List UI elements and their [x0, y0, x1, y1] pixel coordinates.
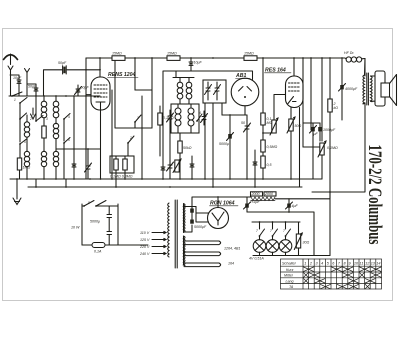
svg-text:Schalter: Schalter: [282, 261, 297, 265]
svg-text:50pF: 50pF: [28, 85, 37, 89]
svg-text:5000μF: 5000μF: [194, 225, 207, 229]
capacitor C5: [72, 158, 76, 179]
svg-text:2: 2: [129, 136, 132, 140]
switch S12: [272, 222, 278, 237]
resistor R15: [42, 126, 46, 150]
label 10pF C1: [13, 76, 22, 80]
tube V3 cathode: [288, 97, 300, 188]
capacitor C22: [190, 209, 194, 220]
svg-text:1: 1: [304, 261, 306, 265]
antenna terminal fork: [8, 66, 13, 96]
resistor R6: [158, 106, 162, 156]
capacitor C1 50pF: [10, 74, 21, 96]
svg-text:4: 4: [321, 261, 323, 265]
svg-text:7: 7: [270, 229, 272, 233]
svg-text:50kΩ: 50kΩ: [183, 146, 192, 150]
box shield detector: [110, 156, 134, 173]
field coil R14 2x2000: [251, 192, 277, 196]
rheostat P5: [294, 226, 302, 256]
svg-text:1264, 4B1: 1264, 4B1: [224, 247, 240, 251]
switch position digits: [14, 98, 285, 233]
svg-text:0,5MΩ: 0,5MΩ: [267, 145, 278, 149]
svg-text:220 V: 220 V: [139, 245, 150, 249]
capacitor C24 4uF: [244, 197, 251, 212]
oscillator coil L10: [186, 78, 192, 105]
switch S4: [63, 114, 70, 142]
svg-text:170-2/2 Columbus: 170-2/2 Columbus: [364, 145, 386, 245]
wire mains: [82, 204, 118, 245]
capacitor C9: [161, 160, 165, 179]
svg-text:5000μ: 5000μ: [219, 142, 229, 146]
tube V1 RENS1204 envelope: [91, 77, 110, 110]
wire B+ top rail y58: [86, 57, 345, 59]
table switch-chart frame: [281, 259, 382, 289]
trimmer C6: [85, 158, 92, 179]
tube V1 cathode: [86, 95, 105, 110]
table X marks row TA: [320, 284, 369, 288]
switch S7: [134, 115, 141, 128]
trimmer C8: [167, 110, 174, 126]
page border frame: [3, 29, 393, 301]
coil L3: [53, 96, 59, 124]
wire AVC line y70: [44, 70, 101, 96]
switch S3: [35, 96, 43, 122]
trimmer C10: [167, 160, 174, 179]
svg-text:Lang: Lang: [286, 279, 294, 283]
output transformer T2 secondary: [371, 76, 373, 102]
wire bus stubs: [17, 91, 255, 196]
svg-text:0,1A: 0,1A: [94, 250, 102, 254]
tuning gang box: [203, 80, 226, 103]
svg-text:1000μF: 1000μF: [323, 128, 336, 132]
wire y133: [263, 132, 274, 134]
svg-text:10μF: 10μF: [194, 61, 203, 65]
potentiometer P4 0.1M: [318, 141, 326, 179]
speaker driver: [381, 83, 390, 97]
svg-text:1: 1: [137, 116, 139, 120]
wire x142: [141, 96, 143, 179]
svg-text:2000: 2000: [251, 192, 260, 196]
wire x311: [310, 58, 312, 130]
wire lamp bottoms: [253, 222, 330, 256]
table header row line: [281, 266, 382, 283]
table X marks row Lang: [304, 279, 376, 283]
svg-text:6: 6: [68, 138, 70, 142]
svg-text:5000μ: 5000μ: [90, 220, 100, 224]
wire x112 grid-cap: [111, 90, 113, 179]
svg-text:15MΩ: 15MΩ: [244, 52, 254, 56]
junction: [262, 132, 264, 134]
tap arrow 125V: [152, 238, 166, 240]
svg-text:4: 4: [199, 111, 201, 115]
wire y192 speaker return: [312, 120, 365, 256]
mains transformer T3 core: [175, 200, 177, 268]
resistor R10 0.1M: [261, 58, 265, 140]
tube V2 electrodes: [239, 87, 252, 92]
wire y123: [303, 122, 320, 124]
mains switch S10: [83, 201, 106, 207]
capacitor C7 10uF: [189, 57, 193, 71]
wire cathode down: [100, 110, 102, 179]
svg-text:50pF: 50pF: [81, 86, 90, 90]
label RENS 1204: [108, 72, 136, 78]
resistor R8: [114, 156, 118, 179]
junction dots bus1: [16, 178, 292, 180]
svg-text:4V 0,51A: 4V 0,51A: [249, 257, 264, 261]
svg-text:50Ω: 50Ω: [295, 124, 302, 128]
antenna A1: [4, 54, 18, 65]
svg-text:14: 14: [376, 261, 380, 265]
capacitor C3 50pF series: [63, 66, 67, 74]
svg-text:AB1: AB1: [235, 73, 246, 79]
resistor R11 0.5M: [261, 140, 265, 156]
capacitor C4 50pF trimmer: [75, 85, 82, 96]
mains transformer T3 secondary HV: [184, 204, 186, 233]
potentiometer P2: [270, 110, 278, 135]
label AB1: [235, 73, 246, 79]
wire grid to tube: [99, 70, 101, 77]
junction dots: [259, 211, 290, 223]
coil L6: [41, 150, 46, 179]
resistor R7 50kOhm: [178, 133, 182, 179]
output transformer T2 core: [367, 73, 369, 105]
capacitor C11: [190, 156, 194, 179]
tap arrow 220V: [152, 245, 166, 247]
svg-text:μF: μF: [313, 132, 319, 136]
tube V4 RGN1064 envelope: [208, 208, 229, 229]
svg-text:30Ω: 30Ω: [303, 241, 310, 245]
wire x205: [204, 103, 206, 179]
capacitor C19 1000uF: [318, 123, 322, 141]
tube V3 grids: [289, 83, 301, 91]
svg-text:50: 50: [241, 121, 245, 125]
svg-text:2×4μF: 2×4μF: [249, 200, 261, 204]
wire anode RES164: [293, 58, 295, 76]
variable capacitor C13: [214, 82, 221, 100]
svg-text:10 W: 10 W: [71, 226, 80, 230]
wire x222: [221, 103, 223, 115]
switch S13: [285, 222, 291, 237]
ground GND2: [13, 196, 21, 205]
switch S6: [63, 138, 70, 180]
wire: [27, 84, 36, 88]
svg-text:110 V: 110 V: [140, 231, 150, 235]
heater loop b: [184, 252, 221, 256]
wire tube V1 anode top: [99, 58, 101, 69]
wire x290 cathode down: [290, 131, 292, 179]
potentiometer P3 50 Ohm: [287, 117, 295, 133]
potentiometer P1: [173, 159, 181, 173]
tap arrow 240V: [152, 252, 166, 254]
table column lines: [303, 259, 376, 289]
field coil winding: [251, 197, 275, 201]
svg-text:3: 3: [46, 117, 48, 121]
oscillator coil L9: [177, 78, 183, 105]
HF choke Dr: [345, 57, 365, 62]
bus B- y187: [28, 186, 302, 188]
resistor R9: [123, 156, 127, 179]
capacitor C17 4000uF: [339, 58, 346, 120]
wire x146 h: [135, 89, 152, 91]
label RES 164: [265, 68, 286, 74]
switch S5: [19, 139, 26, 158]
svg-text:Mittel: Mittel: [284, 274, 293, 278]
wire y212: [247, 212, 314, 256]
resistor R4 15MOhm: [167, 56, 180, 61]
capacitor C18: [310, 123, 317, 179]
tube V3 RES164 envelope: [286, 76, 304, 108]
svg-text:0,1MΩ 0,3MΩ: 0,1MΩ 0,3MΩ: [110, 175, 133, 179]
junction dots on rail: [134, 57, 323, 59]
mains transformer T3 secondary LV: [184, 236, 186, 266]
wire detector y115: [222, 115, 247, 131]
wire osc top: [173, 77, 194, 79]
heater loop a: [184, 241, 221, 245]
wire x322 screen feed: [321, 58, 323, 141]
coil L6b: [53, 150, 58, 179]
table X marks row Mittel: [304, 273, 381, 277]
lamp E1: [253, 236, 266, 252]
wire rectifier output y197: [192, 197, 251, 209]
variable capacitor C12: [205, 82, 212, 100]
svg-text:11: 11: [360, 261, 364, 265]
label 50pF C2: [28, 85, 37, 89]
svg-text:15MΩ: 15MΩ: [167, 52, 177, 56]
junction: [329, 191, 331, 193]
coil L1: [24, 115, 29, 151]
switch S1: [11, 92, 22, 97]
tube V2 AB1 envelope: [231, 78, 259, 106]
svg-text:2: 2: [29, 117, 32, 121]
table row labels: [284, 268, 294, 289]
speaker horn: [390, 75, 397, 106]
wire screen vertical x135: [134, 58, 136, 90]
trimmer C26: [201, 111, 208, 125]
wire AB1 grid rail y71: [163, 71, 253, 160]
capacitor C2 50pF: [34, 88, 38, 96]
tube V4 electrodes: [212, 212, 224, 225]
capacitor C16: [253, 150, 257, 179]
svg-text:Kurz: Kurz: [286, 268, 294, 272]
svg-text:2000: 2000: [264, 192, 273, 196]
wire shield-left vertical: [85, 58, 87, 179]
label 1MOhm R1: [23, 166, 31, 170]
table X marks row Kurz: [304, 267, 381, 271]
svg-text:1MΩ: 1MΩ: [23, 166, 31, 170]
coil L7: [175, 104, 181, 133]
lamp E3: [279, 236, 292, 252]
label 50pF C4: [81, 86, 90, 90]
trimmer C15: [244, 123, 251, 132]
wire x247: [246, 115, 248, 179]
svg-text:7: 7: [283, 229, 285, 233]
switch S11: [259, 222, 265, 237]
wire y147: [303, 146, 320, 148]
svg-text:5: 5: [24, 140, 26, 144]
junction: [217, 196, 219, 198]
junction: [35, 95, 89, 150]
capacitor C25 4uF: [286, 199, 293, 212]
wire HV to rectifier: [184, 207, 197, 233]
tube V1 grids: [94, 85, 107, 97]
speaker frame: [375, 71, 385, 106]
wire RGN anode leads: [196, 207, 209, 223]
svg-text:125 V: 125 V: [140, 238, 150, 242]
antenna terminal fork 2: [25, 69, 30, 97]
svg-text:7: 7: [256, 229, 258, 233]
svg-text:15MΩ: 15MΩ: [112, 52, 122, 56]
svg-text:50pF: 50pF: [58, 61, 67, 65]
coil L4 mid: [53, 123, 58, 150]
wire y197 right: [275, 198, 330, 200]
wire: [274, 95, 286, 111]
capacitor C21: [107, 232, 112, 246]
wire choke to transformer: [364, 59, 366, 77]
switch S2b: [19, 113, 26, 142]
svg-text:1: 1: [14, 98, 16, 102]
svg-text:4000μF: 4000μF: [345, 87, 358, 91]
svg-text:TA: TA: [289, 285, 294, 289]
coil L2: [41, 96, 47, 126]
capacitor C14 5000pF: [227, 131, 234, 179]
switch S9: [196, 114, 202, 122]
coil L8: [188, 104, 194, 133]
svg-text:HF Dr.: HF Dr.: [344, 51, 354, 55]
tap arrow 110V: [152, 231, 166, 233]
resistor R1 1MOhm: [17, 158, 21, 179]
wire transformer primary bottom: [364, 103, 366, 120]
svg-text:4μF: 4μF: [292, 204, 299, 208]
label 50pF C3: [58, 61, 67, 65]
IF transformer T1 box: [171, 104, 199, 133]
capacitor C20: [107, 206, 112, 232]
svg-text:0,1MΩ: 0,1MΩ: [327, 146, 338, 150]
wire: [115, 120, 152, 128]
wire x115: [114, 61, 116, 120]
wire: [56, 96, 100, 158]
svg-text:164: 164: [228, 262, 234, 266]
lamp feed wires: [252, 221, 300, 223]
wire x213: [212, 103, 214, 125]
junction dots bus2: [35, 186, 256, 188]
label RGN 1064: [210, 201, 235, 207]
svg-text:240 V: 240 V: [139, 252, 150, 256]
lamp E2: [266, 236, 279, 252]
resistor R12 0.5M: [261, 156, 265, 179]
wire: [87, 149, 89, 158]
ground GND1: [31, 108, 36, 119]
svg-text:RENS 1204: RENS 1204: [108, 72, 136, 78]
wire AB1 cathode down: [244, 106, 246, 115]
capacitor C23: [190, 220, 194, 224]
wire transformer to speaker frame: [365, 59, 376, 102]
coil L5: [24, 151, 29, 179]
switch S8: [127, 136, 134, 156]
mains transformer T3 primary: [168, 203, 170, 256]
svg-text:0,5: 0,5: [267, 163, 272, 167]
wire x152: [151, 58, 153, 128]
resistor R13 2k: [328, 58, 332, 199]
junction: [229, 114, 231, 116]
heater loop c: [184, 263, 221, 267]
switch S2: [19, 98, 27, 120]
title 170-2/2 Columbus vertical: [364, 145, 386, 245]
bus ground y179: [10, 178, 322, 180]
junction: [99, 69, 101, 71]
resistor R5 15MOhm: [244, 56, 257, 61]
junction: [329, 57, 331, 59]
output transformer T2 primary: [363, 75, 365, 104]
table header text: [282, 261, 381, 265]
wire x303: [302, 58, 304, 147]
resistor R3 15MOhm: [112, 56, 125, 61]
svg-text:5: 5: [162, 119, 164, 123]
fuse F1 0.1A: [82, 243, 148, 248]
svg-text:10μF: 10μF: [13, 76, 22, 80]
svg-text:kΩ: kΩ: [334, 106, 339, 110]
svg-text:4: 4: [68, 115, 70, 119]
wire bus y96 left section: [9, 95, 100, 97]
